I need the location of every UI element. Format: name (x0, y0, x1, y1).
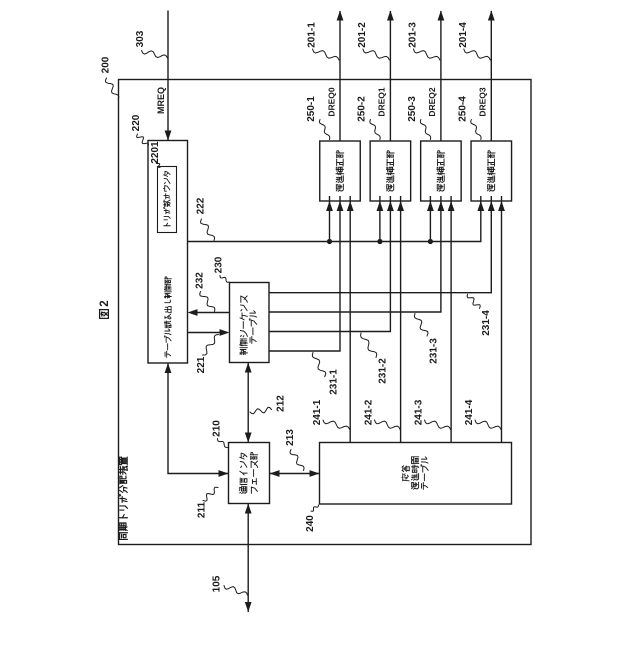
leader squiggle 231-2 (361, 333, 377, 358)
leader squiggle 200 (105, 78, 118, 100)
leader squiggle 201-3 (413, 49, 440, 60)
svg-text:211: 211 (197, 501, 208, 518)
wire 241-3: delay table to unit 3 (450, 196, 452, 443)
svg-text:231-3: 231-3 (429, 338, 440, 364)
leader squiggle 303 (142, 51, 168, 59)
box 250-3: delay correction unit (421, 141, 462, 201)
svg-text:241-2: 241-2 (364, 399, 375, 425)
leader squiggle 201-2 (363, 49, 390, 60)
leader squiggle 231-4 (467, 294, 480, 308)
leader squiggle 250-2 (370, 120, 380, 140)
leader squiggle 211 (203, 487, 218, 501)
wire 231-1: sequence output to unit 1 (269, 196, 340, 351)
svg-text:232: 232 (195, 272, 206, 289)
svg-text:201-3: 201-3 (408, 22, 419, 48)
text 通信インタ (239, 491, 242, 494)
wire 232: box230 -> box220 (196, 312, 230, 314)
outer box: synchronous trigger distribution device 200 (119, 80, 532, 545)
svg-text:212: 212 (276, 395, 287, 412)
svg-text:105: 105 (212, 575, 223, 592)
leader squiggle 221 (203, 335, 219, 356)
svg-text:250-3: 250-3 (407, 96, 418, 122)
svg-text:221: 221 (196, 356, 207, 373)
wire 213: box210 <-> box240 (270, 473, 320, 475)
leader squiggle 241-3 (425, 420, 451, 430)
leader squiggle 212 (250, 407, 272, 414)
text 制御シーケンス (240, 352, 246, 354)
leader squiggle 2201 (156, 162, 160, 168)
label: 同期トリガ分配装置 (device name, vertical) (120, 538, 128, 540)
svg-text:DREQ0: DREQ0 (326, 87, 336, 117)
svg-text:201-2: 201-2 (357, 22, 368, 48)
leader squiggle 201-1 (313, 49, 340, 60)
wire 231-4: sequence output to unit 4 (269, 196, 491, 293)
svg-text:231-1: 231-1 (328, 369, 339, 395)
svg-text:250-1: 250-1 (306, 96, 317, 122)
wire 231-3: sequence output to unit 3 (269, 196, 441, 312)
wire: 222 branch up to unit 2 (379, 196, 381, 242)
svg-text:DREQ1: DREQ1 (377, 87, 387, 117)
svg-text:201-1: 201-1 (307, 22, 318, 48)
leader squiggle 241-2 (375, 420, 401, 430)
wire: output DREQ1 / 201-2 (389, 11, 391, 141)
junction dot on 222 (branch 2) (377, 239, 382, 244)
text 遅延補正部 #1 (335, 189, 338, 192)
svg-text:2201: 2201 (150, 141, 161, 164)
svg-text:241-4: 241-4 (464, 399, 475, 425)
svg-text:250-2: 250-2 (357, 96, 368, 122)
leader squiggle 201-4 (464, 49, 491, 60)
leader squiggle 250-3 (420, 120, 430, 140)
leader squiggle 232 (200, 292, 215, 312)
svg-text:DREQ2: DREQ2 (427, 87, 437, 117)
leader squiggle 231-1 (312, 353, 326, 377)
leader squiggle 231-3 (414, 314, 428, 337)
wire: 222 branch up to unit 1 (329, 196, 331, 242)
svg-text:201-4: 201-4 (458, 22, 469, 48)
leader squiggle 222 (201, 219, 215, 241)
svg-text:241-3: 241-3 (414, 399, 425, 425)
wire: 222 branch up to unit 3 (429, 196, 431, 242)
text 遅延補正部 #3 (436, 189, 439, 192)
svg-text:250-4: 250-4 (457, 96, 468, 122)
svg-text:MREQ: MREQ (156, 87, 166, 114)
svg-text:231-2: 231-2 (377, 358, 388, 384)
wire: output DREQ2 / 201-3 (440, 11, 442, 141)
svg-text:303: 303 (135, 30, 146, 47)
leader squiggle 210 (218, 439, 228, 448)
wire: output DREQ3 / 201-4 (490, 11, 492, 141)
wire 231-2: sequence output to unit 2 (269, 196, 390, 332)
wire 241-1: delay table to unit 1 (349, 196, 351, 443)
text トリガ数カウンタ (164, 225, 170, 227)
leader squiggle 250-4 (471, 120, 481, 140)
wire 212: box230 <-> box210 (247, 363, 249, 443)
wire: output DREQ0 / 201-1 (339, 11, 341, 141)
leader squiggle 240 (311, 505, 319, 511)
box 230: control sequence table (230, 283, 270, 363)
wire 241-2: delay table to unit 2 (400, 196, 402, 443)
leader squiggle 230 (220, 276, 229, 283)
box 220: table readout control unit (148, 141, 188, 364)
box 240: response delay time table (320, 443, 512, 505)
svg-text:240: 240 (305, 515, 316, 532)
svg-text:210: 210 (212, 420, 223, 437)
figure label 図2 (99, 310, 101, 319)
leader squiggle 105 (224, 586, 248, 596)
text テーブル (box240) (421, 484, 423, 489)
wire 222: from box 220 to delay units (188, 196, 481, 242)
text フェース部 (250, 487, 252, 493)
box 210: communication interface unit (229, 443, 270, 504)
leader squiggle 241-4 (475, 420, 501, 430)
leader squiggle 241-1 (323, 420, 350, 430)
svg-text:2: 2 (99, 300, 111, 306)
arrowhead into box 220 (165, 131, 172, 141)
wire 211: box220 <-> box210 (168, 363, 229, 474)
text 応答 (401, 476, 404, 478)
svg-text:200: 200 (101, 56, 112, 73)
svg-text:241-1: 241-1 (312, 399, 323, 425)
wire 221: box220 -> box230 (188, 332, 222, 334)
box 250-2: delay correction unit (370, 141, 411, 201)
box 2201: trigger count counter (158, 167, 177, 233)
text 遅延補正部 #2 (386, 189, 389, 192)
text テーブル読み出し制御部 (164, 352, 166, 356)
text テーブル (line2) (249, 338, 251, 343)
text 遅延補正部 #4 (486, 189, 489, 192)
wire 105: external interface line (247, 504, 249, 613)
svg-text:230: 230 (214, 256, 225, 273)
wire 241-4: delay table to unit 4 (501, 196, 503, 443)
text 遅延時間 (411, 487, 414, 490)
svg-text:220: 220 (131, 114, 142, 131)
svg-text:213: 213 (285, 429, 296, 446)
leader squiggle 220 (137, 134, 149, 147)
svg-text:DREQ3: DREQ3 (478, 87, 488, 117)
wire: MREQ input line 303 (167, 11, 169, 141)
box 250-1: delay correction unit (320, 141, 361, 201)
svg-text:222: 222 (196, 197, 207, 214)
leader squiggle 213 (290, 450, 304, 471)
junction dot on 222 (branch 3) (428, 239, 433, 244)
junction dot on 222 (branch 1) (327, 239, 332, 244)
leader squiggle 250-1 (319, 120, 329, 140)
svg-text:231-4: 231-4 (481, 310, 492, 336)
box 250-4: delay correction unit (471, 141, 512, 201)
